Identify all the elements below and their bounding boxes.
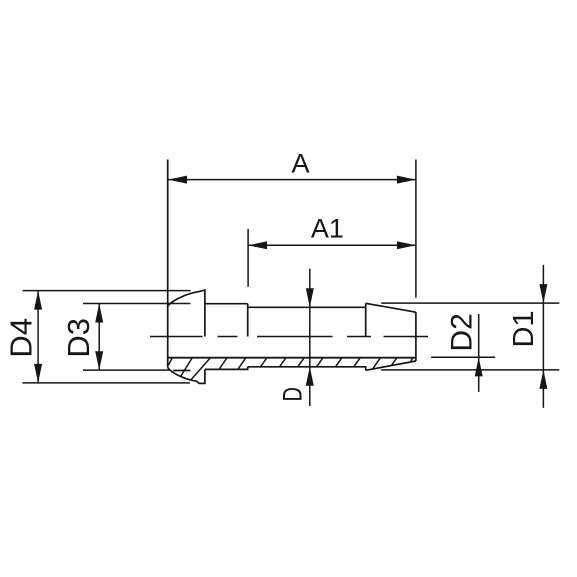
part left face / extension line of dimension A (left) [167,160,169,368]
D1 extension bottom [381,369,559,371]
D3 extension top [83,303,190,305]
D3 extension bottom [83,369,170,371]
svg-text:D1: D1 [508,310,540,347]
D2 extension (bore) [431,356,495,358]
D4 extension top [23,290,191,292]
centerline (dash-dot axis) [150,336,203,338]
barb cone bottom slant [366,361,416,370]
svg-text:D2: D2 [445,313,478,351]
bell head bottom outline with rim step [168,368,205,384]
dimension D4 line [37,291,39,383]
extension line A1 left [247,229,249,287]
arrowheads dimension D4 [34,291,42,310]
sleeve bottom line [248,367,366,371]
dimension A1 line [248,244,416,246]
sleeve top line (diameter D) [248,306,366,308]
dimension D leader line [309,269,311,406]
neck bottom line [205,367,248,370]
arrowheads dimension A1 [248,241,267,249]
svg-text:D4: D4 [3,318,38,358]
neck top line [205,303,248,305]
D1 extension top [381,302,559,304]
barb back edge (top) [365,303,367,336]
dimension D2 line [478,314,480,392]
arrowheads dimension D1 [539,284,547,303]
D4 extension bottom [23,382,191,384]
arrowhead dimension D2 [475,357,483,376]
svg-text:D: D [278,387,308,402]
arrowheads dimension D [306,288,314,307]
section hatching strokes [168,358,172,366]
arrowheads dimension D3 [95,304,103,323]
svg-text:A: A [291,149,309,179]
extension line right (A and A1) [415,160,417,298]
step edge at neck/sleeve transition (top) [247,304,249,337]
barb cone top slant and right end face [366,303,416,361]
counterbore bottom line (D3 bore) [173,370,190,372]
bell head top outline [168,290,205,336]
dimension A line [168,179,416,181]
svg-text:D3: D3 [61,318,96,358]
svg-text:A1: A1 [311,214,344,244]
dimension D1 line [542,265,544,408]
arrowheads dimension A [168,176,187,184]
bore line (section, bottom) [168,357,416,359]
dimension D3 line [98,304,100,371]
